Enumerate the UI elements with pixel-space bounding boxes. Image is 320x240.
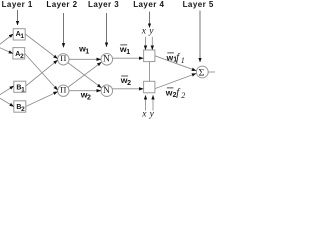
svg-text:Layer 4: Layer 4 (133, 0, 164, 9)
svg-text:2: 2 (87, 95, 91, 102)
svg-text:Layer 5: Layer 5 (183, 0, 214, 9)
svg-text:w: w (165, 87, 173, 97)
svg-text:Σ: Σ (199, 67, 205, 78)
svg-text:Π: Π (60, 84, 66, 94)
svg-text:2: 2 (127, 80, 131, 87)
svg-text:N: N (103, 55, 110, 65)
svg-text:1: 1 (85, 49, 89, 56)
svg-text:y: y (148, 27, 154, 37)
svg-text:Layer 1: Layer 1 (2, 0, 33, 9)
svg-text:Π: Π (60, 53, 66, 63)
svg-text:w: w (166, 53, 174, 63)
svg-text:1: 1 (126, 49, 130, 56)
svg-text:2: 2 (21, 106, 25, 113)
svg-text:1: 1 (20, 33, 24, 40)
svg-text:Layer 3: Layer 3 (88, 0, 119, 9)
svg-text:x: x (141, 110, 147, 120)
svg-text:Layer 2: Layer 2 (46, 0, 77, 9)
svg-text:y: y (149, 110, 155, 120)
svg-text:2: 2 (20, 53, 24, 60)
svg-text:x: x (141, 27, 147, 37)
svg-text:2: 2 (181, 91, 185, 100)
svg-text:N: N (103, 86, 110, 96)
svg-text:1: 1 (21, 86, 25, 93)
svg-text:1: 1 (181, 56, 185, 65)
